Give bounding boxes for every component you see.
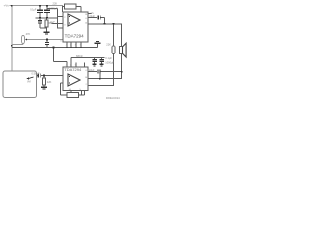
- svg-text:22K: 22K: [47, 80, 52, 84]
- svg-text:47K: 47K: [26, 32, 31, 36]
- svg-text:22K: 22K: [53, 2, 58, 6]
- svg-text:22µF: 22µF: [89, 69, 95, 72]
- svg-text:10µF: 10µF: [50, 22, 56, 24]
- svg-text:22µF: 22µF: [90, 15, 96, 18]
- svg-text:1000µF: 1000µF: [49, 7, 58, 10]
- svg-text:680nF: 680nF: [76, 55, 83, 58]
- svg-text:0.56µF: 0.56µF: [32, 72, 41, 76]
- svg-text:+Vs: +Vs: [4, 4, 10, 8]
- svg-text:VM: VM: [27, 81, 31, 84]
- svg-text:TDA7294: TDA7294: [64, 67, 82, 72]
- svg-text:1000µF: 1000µF: [105, 60, 114, 64]
- svg-text:22K: 22K: [106, 43, 111, 47]
- svg-text:0.1µF: 0.1µF: [105, 56, 112, 60]
- svg-text:TDA7294: TDA7294: [65, 33, 85, 38]
- svg-text:D93AU014: D93AU014: [106, 96, 120, 100]
- svg-text:0.1µF: 0.1µF: [30, 8, 37, 11]
